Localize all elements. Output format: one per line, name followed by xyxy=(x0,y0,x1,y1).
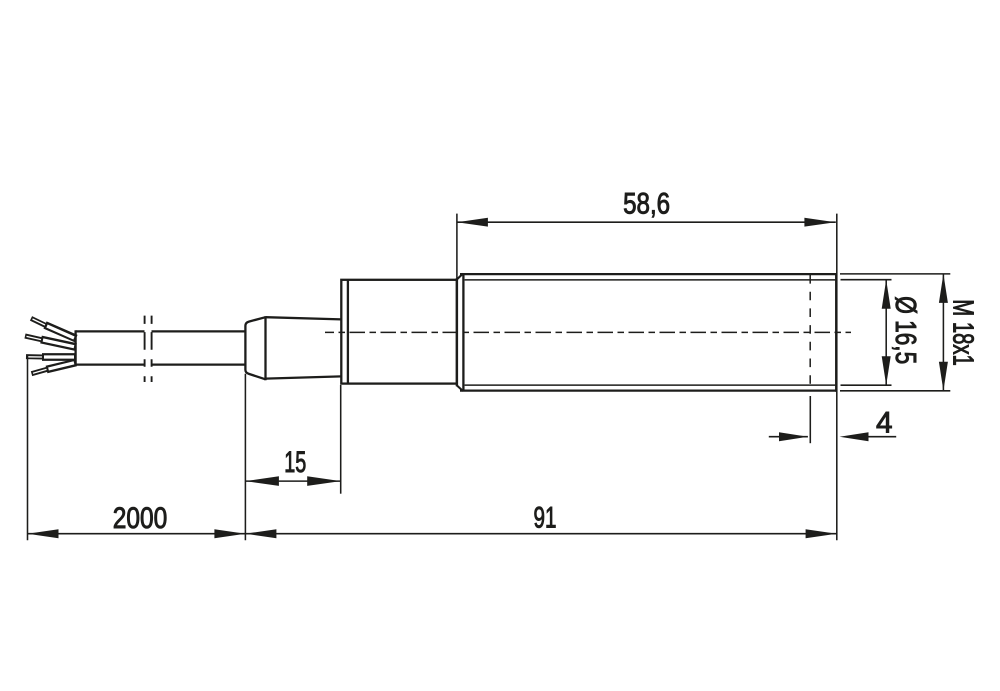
wire 3 xyxy=(26,353,76,361)
svg-text:M 18x1: M 18x1 xyxy=(946,299,978,366)
dimension 58,6 xyxy=(457,214,837,541)
wire 1 xyxy=(31,318,76,338)
wire 4 xyxy=(32,363,77,374)
cable jacket xyxy=(76,330,246,365)
svg-text:15: 15 xyxy=(284,446,306,479)
wire 2 xyxy=(25,336,76,347)
dimension 91 xyxy=(245,529,836,538)
svg-text:Ø 16,5: Ø 16,5 xyxy=(889,296,921,364)
cable break symbol xyxy=(145,316,152,382)
dimension 4 xyxy=(769,396,896,443)
svg-text:4: 4 xyxy=(876,406,893,439)
cable gland cone xyxy=(245,316,341,380)
centerline xyxy=(325,331,851,333)
sensor housing (small body) xyxy=(341,280,457,384)
dimension 2000 xyxy=(28,356,246,540)
svg-text:2000: 2000 xyxy=(113,502,168,535)
hidden line (4 mm from end) xyxy=(809,275,811,390)
svg-text:91: 91 xyxy=(534,502,557,535)
dimension diameter 16,5 xyxy=(841,280,892,386)
dimension thread M 18x1 xyxy=(840,274,950,391)
svg-text:58,6: 58,6 xyxy=(623,188,670,221)
threaded barrel xyxy=(456,273,836,392)
dimension 15 xyxy=(245,374,340,541)
